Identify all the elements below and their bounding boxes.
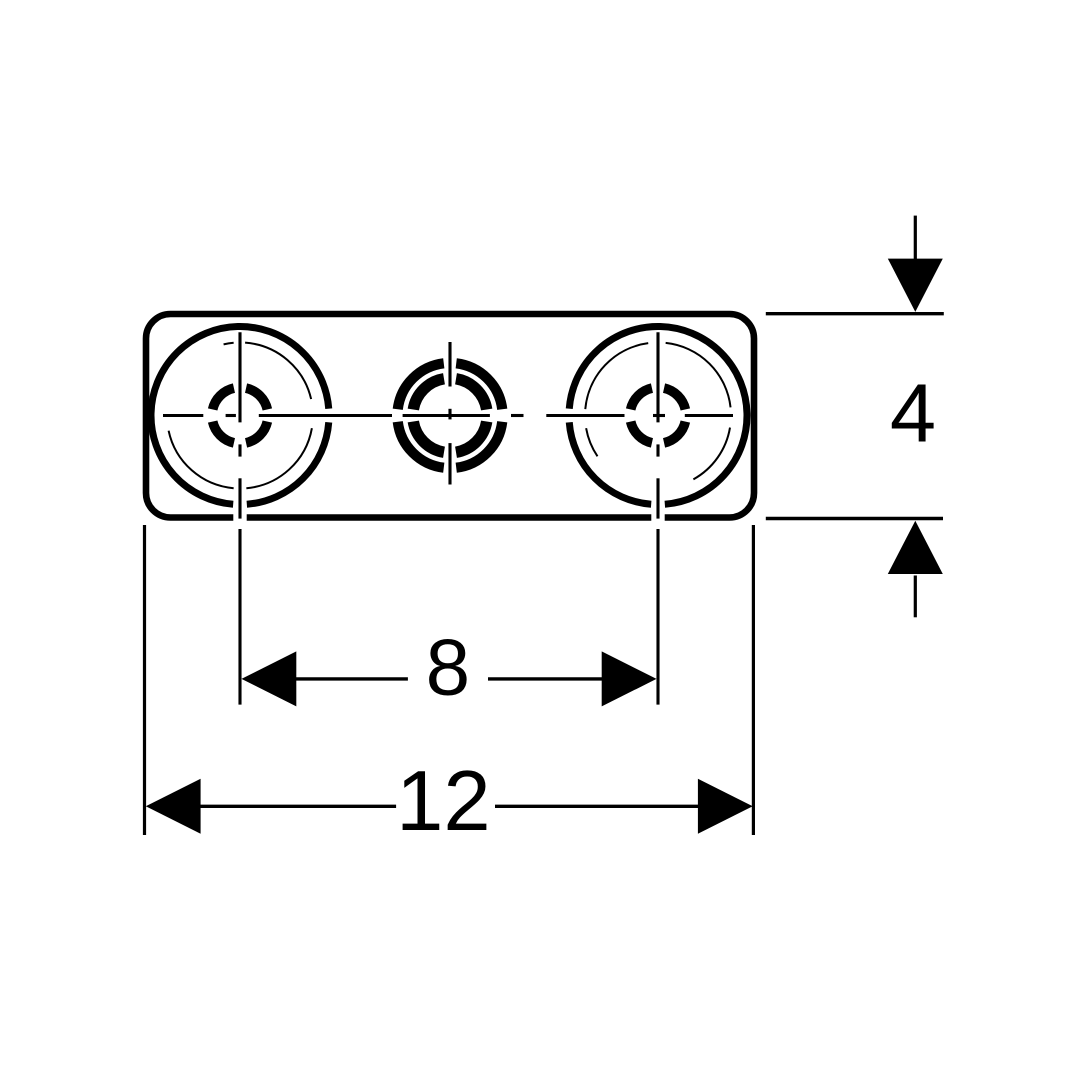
dimension 12: right extension line	[752, 525, 755, 835]
left bore circle	[213, 388, 268, 443]
dimension 12: left arrowhead	[146, 779, 201, 834]
dimension 12: dimension line left segment	[199, 805, 396, 808]
svg-text:12: 12	[396, 754, 491, 849]
dimension 8: dimension line left segment	[296, 677, 408, 680]
dimension 4: bottom extension line (from body bottom edge)	[766, 517, 943, 520]
dimension 8: dimension line right segment	[488, 677, 602, 680]
svg-text:4: 4	[890, 367, 936, 460]
dimension 8: right arrowhead	[602, 651, 657, 706]
dimension 8: left arrowhead	[242, 651, 297, 706]
halo gap in body bottom edge at right hole centerline	[651, 510, 664, 525]
middle port outer ring	[398, 363, 502, 467]
dimension 4: bottom leader line	[914, 576, 917, 618]
vertical centerline of left hole (chain line)	[238, 332, 241, 518]
middle port inner ring	[413, 379, 486, 452]
dimension 8: extension line from right hole center	[656, 529, 659, 705]
dimension 4: top leader line	[914, 216, 917, 260]
dimension 4: top arrowhead (pointing down)	[888, 259, 943, 312]
dimension 12: left extension line	[143, 525, 146, 835]
left socket outer circle	[151, 327, 329, 505]
right bore circle	[631, 388, 686, 443]
svg-text:8: 8	[426, 622, 471, 711]
halo gap in body bottom edge at left hole centerline	[233, 510, 246, 525]
horizontal centerline through all three ports (chain line)	[163, 414, 733, 417]
vertical centerline of right hole (chain line)	[656, 332, 659, 518]
dimension 12: dimension line right segment	[495, 805, 698, 808]
dimension 4: top extension line (from body top edge)	[766, 312, 944, 315]
dimension 12: right arrowhead	[698, 779, 753, 834]
part body outline (rounded rectangle, top view)	[146, 314, 754, 518]
vertical centerline of middle port (chain line)	[448, 342, 451, 485]
right socket outer circle	[569, 327, 747, 505]
dimension 4: bottom arrowhead (pointing up)	[888, 521, 943, 574]
dimension 8: extension line from left hole center	[238, 529, 241, 705]
left socket inner thin arc	[169, 343, 312, 489]
right socket inner thin arc	[585, 343, 730, 479]
